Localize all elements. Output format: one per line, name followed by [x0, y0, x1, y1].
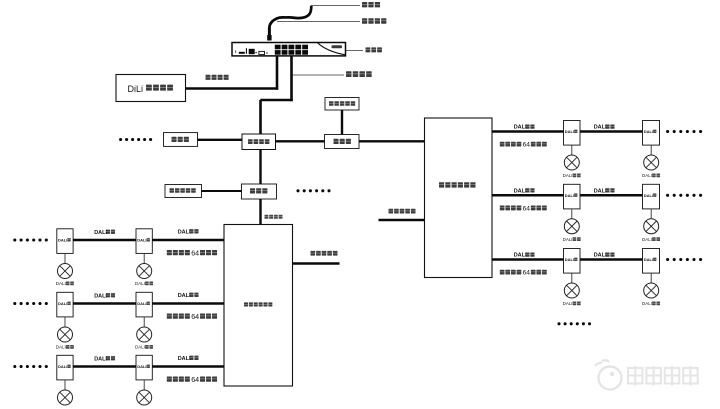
- svg-text:DALI: DALI: [178, 229, 191, 235]
- svg-text:DALI: DALI: [514, 189, 527, 195]
- svg-text:DALI: DALI: [135, 281, 145, 286]
- svg-text:DALI: DALI: [56, 345, 66, 350]
- svg-text:DALI: DALI: [94, 230, 107, 236]
- svg-text:DALI: DALI: [565, 129, 574, 134]
- svg-text:DALI: DALI: [58, 364, 67, 369]
- svg-text:64: 64: [523, 142, 531, 149]
- svg-text:64: 64: [191, 313, 199, 321]
- svg-text:DALI: DALI: [58, 301, 67, 306]
- svg-text:DALI: DALI: [594, 253, 607, 259]
- svg-text:DALI: DALI: [135, 345, 145, 350]
- svg-text:DALI: DALI: [563, 301, 573, 306]
- svg-text:DALI: DALI: [644, 193, 653, 198]
- svg-text:DALI: DALI: [642, 237, 652, 242]
- svg-text:DALI: DALI: [94, 293, 107, 299]
- svg-text:DALI: DALI: [594, 125, 607, 131]
- svg-text:DALI: DALI: [178, 293, 191, 299]
- svg-text:64: 64: [191, 249, 199, 257]
- svg-text:64: 64: [191, 376, 199, 384]
- svg-text:DiLi: DiLi: [128, 84, 144, 94]
- svg-text:DALI: DALI: [514, 253, 527, 259]
- svg-text:DALI: DALI: [594, 189, 607, 195]
- svg-text:DALI: DALI: [642, 173, 652, 178]
- svg-text:DALI: DALI: [137, 364, 146, 369]
- svg-text:DALI: DALI: [565, 257, 574, 262]
- svg-text:DALI: DALI: [563, 237, 573, 242]
- svg-text:DALI: DALI: [563, 173, 573, 178]
- svg-text:64: 64: [523, 270, 531, 277]
- svg-text:DALI: DALI: [514, 125, 527, 131]
- svg-text:64: 64: [523, 205, 531, 212]
- svg-text:DALI: DALI: [642, 301, 652, 306]
- svg-text:DALI: DALI: [56, 281, 66, 286]
- svg-text:DALI: DALI: [58, 238, 67, 243]
- svg-text:DALI: DALI: [137, 238, 146, 243]
- svg-text:DALI: DALI: [644, 257, 653, 262]
- svg-text:DALI: DALI: [94, 356, 107, 362]
- svg-text:DALI: DALI: [178, 356, 191, 362]
- svg-text:DALI: DALI: [137, 301, 146, 306]
- svg-text:DALI: DALI: [565, 193, 574, 198]
- svg-text:DALI: DALI: [644, 129, 653, 134]
